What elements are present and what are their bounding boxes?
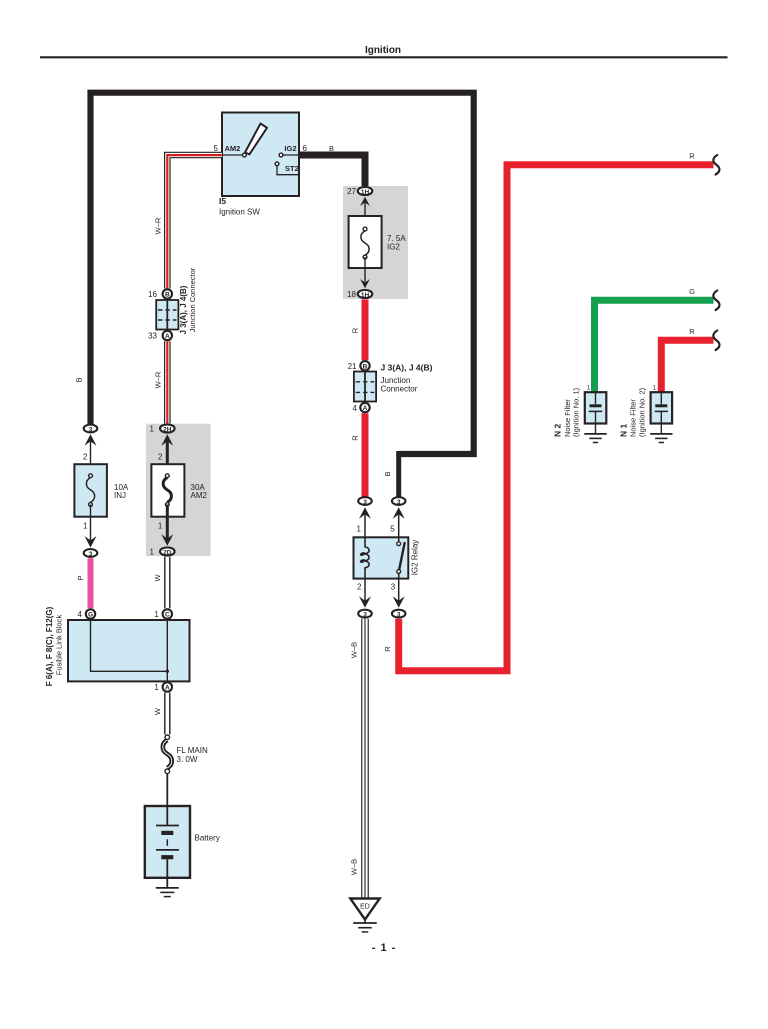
- connector 27 1H: [347, 187, 372, 196]
- svg-text:1: 1: [83, 522, 88, 531]
- svg-text:W: W: [153, 707, 162, 715]
- svg-text:1H: 1H: [361, 189, 370, 196]
- fuse 10A INJ: [74, 434, 128, 547]
- svg-text:(Ignition No. 2): (Ignition No. 2): [637, 387, 646, 437]
- svg-text:N 2: N 2: [553, 424, 563, 438]
- svg-text:W–R: W–R: [154, 371, 163, 388]
- svg-text:3: 3: [363, 499, 367, 506]
- svg-text:4: 4: [353, 404, 358, 413]
- svg-text:1: 1: [653, 386, 657, 392]
- svg-text:A: A: [363, 405, 368, 412]
- svg-text:1: 1: [357, 525, 362, 534]
- fuse block shade 30A AM2: [146, 424, 211, 556]
- svg-text:R: R: [351, 435, 360, 441]
- svg-text:W: W: [153, 574, 162, 582]
- svg-text:Noise Filter: Noise Filter: [629, 399, 638, 437]
- svg-text:A: A: [165, 685, 170, 692]
- wire W fusible link A to FL MAIN: [153, 693, 167, 735]
- svg-text:Ignition SW: Ignition SW: [219, 208, 260, 217]
- svg-text:R: R: [351, 327, 360, 333]
- svg-text:F 6(A), F 8(C), F12(G): F 6(A), F 8(C), F12(G): [45, 606, 54, 686]
- wire B from ignition switch IG2 to fuse 1H: [299, 144, 365, 187]
- svg-text:G: G: [88, 612, 93, 619]
- fuse block shade 7.5A IG2: [343, 186, 408, 299]
- svg-text:21: 21: [348, 362, 357, 371]
- svg-text:IG2: IG2: [387, 243, 400, 252]
- svg-text:B: B: [383, 471, 392, 476]
- pin AM2: [243, 153, 247, 157]
- wire R fuse to junction connector no.2: [351, 300, 366, 361]
- fuse 7.5A IG2: [349, 197, 407, 288]
- svg-text:3. 0W: 3. 0W: [177, 755, 198, 764]
- svg-text:N 1: N 1: [618, 424, 628, 438]
- svg-text:3: 3: [89, 551, 93, 558]
- battery: [145, 806, 220, 878]
- svg-text:2: 2: [158, 453, 163, 462]
- svg-text:4: 4: [78, 610, 83, 619]
- node 3 above relay pin 1: [358, 497, 372, 506]
- noise filter N1: [618, 386, 672, 438]
- pin IG2: [279, 153, 283, 157]
- svg-text:1: 1: [158, 522, 163, 531]
- svg-text:1: 1: [150, 425, 155, 434]
- ground below N2: [584, 424, 606, 443]
- wire R junction connector to relay circle: [351, 413, 366, 496]
- svg-text:W–B: W–B: [350, 642, 359, 658]
- svg-text:G: G: [689, 287, 695, 296]
- svg-text:3: 3: [89, 426, 93, 433]
- svg-text:AM2: AM2: [191, 491, 208, 500]
- svg-text:1: 1: [154, 610, 159, 619]
- svg-text:27: 27: [347, 187, 356, 196]
- node 3 top of 10A INJ: [84, 425, 98, 434]
- svg-text:3: 3: [397, 499, 401, 506]
- svg-text:Noise Filter: Noise Filter: [563, 399, 572, 437]
- svg-text:J 3(A), J 4(B): J 3(A), J 4(B): [179, 285, 188, 334]
- svg-text:3: 3: [363, 611, 367, 618]
- svg-text:W–B: W–B: [350, 859, 359, 875]
- wire P pink to fusible link: [76, 558, 91, 608]
- svg-text:IG2 Relay: IG2 Relay: [411, 540, 420, 576]
- svg-text:1: 1: [150, 548, 155, 557]
- pin ST2: [275, 162, 279, 166]
- wire W fuse 2D to fusible link C: [153, 557, 167, 608]
- svg-text:Connector: Connector: [381, 384, 418, 393]
- break symbol R noise filter: [713, 331, 719, 351]
- fusible link FL MAIN 3.0W: [163, 735, 208, 806]
- svg-text:2: 2: [83, 453, 88, 462]
- svg-text:R: R: [383, 646, 392, 652]
- fusible link block F6(A) F8(C) F12(G): [45, 606, 190, 692]
- svg-text:3: 3: [397, 611, 401, 618]
- svg-text:INJ: INJ: [114, 491, 126, 500]
- svg-text:B: B: [165, 292, 170, 299]
- noise filter N2: [553, 386, 607, 438]
- svg-text:I5: I5: [219, 196, 226, 206]
- ground below battery: [156, 878, 179, 897]
- wire R relay output to top right: [383, 151, 714, 671]
- break symbol G: [713, 291, 719, 311]
- svg-text:FL MAIN: FL MAIN: [177, 746, 208, 755]
- connector 18 1H: [347, 290, 372, 299]
- relay switch: [398, 537, 400, 542]
- svg-text:B: B: [329, 144, 334, 153]
- svg-text:5: 5: [214, 144, 219, 153]
- wire W-B relay to ED ground: [350, 619, 366, 898]
- wire W-R from junction connector to fuse 2H: [154, 341, 168, 423]
- ground ED: [350, 899, 379, 932]
- svg-text:2H: 2H: [163, 426, 172, 433]
- svg-text:1H: 1H: [361, 292, 370, 299]
- wire G noise filter no.1: [595, 287, 714, 392]
- connector 1 2H: [150, 424, 175, 433]
- svg-text:B: B: [363, 363, 368, 370]
- key glyph: [245, 124, 267, 155]
- svg-text:Fusible Link Block: Fusible Link Block: [55, 615, 64, 676]
- svg-text:R: R: [689, 327, 695, 336]
- svg-text:P: P: [76, 575, 85, 580]
- svg-text:C: C: [165, 612, 170, 619]
- svg-text:(Ignition No. 1): (Ignition No. 1): [572, 387, 581, 437]
- page number: [372, 942, 397, 954]
- fuse 30A AM2: [151, 434, 207, 545]
- svg-text:AM2: AM2: [225, 144, 241, 153]
- svg-text:ST2: ST2: [285, 164, 299, 173]
- svg-text:18: 18: [347, 290, 356, 299]
- ignition switch I5: [214, 113, 308, 217]
- svg-text:Ignition: Ignition: [365, 45, 401, 56]
- node 3 below relay pin 2: [358, 610, 372, 619]
- svg-text:Battery: Battery: [195, 834, 220, 843]
- svg-text:16: 16: [148, 290, 157, 299]
- wire R noise filter no.2: [661, 327, 713, 392]
- wire B main thick black net from battery circle up over to relay column: [75, 93, 474, 498]
- connector 1 2D: [150, 547, 175, 556]
- svg-text:2: 2: [357, 582, 362, 591]
- node 3 bottom of 10A INJ: [84, 549, 98, 558]
- svg-text:3: 3: [391, 582, 396, 591]
- junction connector J3(A) J4(B) no.1: [148, 267, 197, 340]
- svg-text:A: A: [165, 333, 170, 340]
- svg-text:J 3(A), J 4(B): J 3(A), J 4(B): [381, 363, 433, 373]
- svg-text:- 1 -: - 1 -: [372, 942, 397, 954]
- relay coil: [365, 537, 369, 578]
- svg-text:ED: ED: [360, 904, 370, 911]
- svg-text:1: 1: [154, 683, 159, 692]
- ground below N1: [650, 424, 672, 443]
- wire W-R from AM2 down to junction connector: [154, 155, 223, 289]
- svg-text:6: 6: [303, 144, 308, 153]
- svg-text:R: R: [689, 151, 695, 160]
- svg-text:B: B: [75, 377, 84, 382]
- relay IG2: [354, 507, 420, 608]
- junction connector J3(A) J4(B) no.2: [348, 361, 433, 413]
- svg-text:33: 33: [148, 332, 157, 341]
- svg-text:2D: 2D: [163, 549, 172, 556]
- svg-text:Junction Connector: Junction Connector: [188, 267, 197, 332]
- title Ignition: [40, 45, 728, 57]
- node 3 above relay pin 5: [392, 497, 406, 506]
- svg-text:IG2: IG2: [284, 144, 296, 153]
- break symbol top right R: [713, 155, 719, 175]
- svg-text:W–R: W–R: [154, 217, 163, 234]
- svg-text:1: 1: [587, 386, 591, 392]
- node 3 below relay pin 3: [392, 610, 406, 619]
- svg-text:5: 5: [390, 525, 395, 534]
